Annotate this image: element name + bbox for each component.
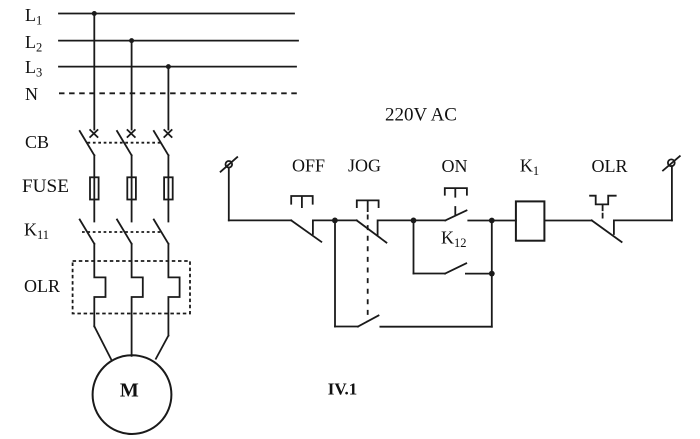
wire phase B through fuses [131, 155, 133, 221]
wire left rail horizontal [229, 219, 291, 221]
svg-text:FUSE: FUSE [22, 176, 69, 197]
wire bypass rail right [380, 326, 491, 328]
breaker CB linkage (dashed) [88, 142, 161, 144]
wire left rail vertical [228, 168, 230, 221]
breaker CB pole 2 cross [128, 130, 135, 137]
wire phase A drop [93, 14, 95, 130]
pushbutton JOG cap [357, 200, 379, 211]
wire drop to bypass rail [334, 220, 336, 326]
contactor K11 linkage (dashed) [82, 231, 161, 233]
node junction before ON [411, 218, 417, 224]
contactor K11 pole 1 blade [80, 220, 95, 244]
wire L1 bus [59, 13, 294, 15]
svg-text:OLR: OLR [592, 156, 628, 176]
wire phase C to motor [156, 336, 169, 359]
motor M body [93, 355, 172, 434]
breaker CB pole 3 cross [164, 130, 171, 137]
pushbutton ON NO blade [445, 210, 466, 220]
terminal left (circle with slash) [226, 161, 233, 168]
wire L2 bus [59, 40, 298, 42]
overload heater phase C [168, 244, 179, 336]
node junction on L2 [129, 38, 134, 43]
pushbutton OFF fixed contact [313, 220, 335, 234]
pushbutton OFF NC blade [291, 220, 321, 241]
wire K1 to OLR contact [544, 220, 591, 222]
svg-text:OFF: OFF [292, 156, 325, 176]
wire right vertical (rail to bypass) [491, 221, 493, 327]
svg-text:N: N [25, 84, 38, 104]
overload contact actuator stem [602, 204, 604, 217]
wire rail ON to K1 [468, 220, 516, 222]
breaker CB pole 1 cross [90, 130, 97, 137]
wire K12 branch left vertical [413, 220, 415, 273]
breaker CB pole 2 blade [117, 131, 132, 155]
wire phase C through fuses [167, 155, 169, 221]
contact K12 NO blade [445, 263, 466, 273]
wire phase A through fuses [93, 155, 95, 221]
pushbutton JOG NC blade [357, 220, 387, 242]
overload relay OLR enclosure (dashed box) [73, 261, 190, 314]
wire L3 bus [59, 66, 296, 68]
svg-text:OLR: OLR [24, 276, 60, 296]
pushbutton OFF cap [291, 196, 313, 207]
fuse F3 body [164, 177, 173, 199]
overload contact fixed side [614, 220, 672, 234]
pushbutton ON cap [445, 188, 467, 214]
wire phase B drop [131, 41, 133, 130]
wire phase C drop [167, 67, 169, 130]
wire rail OFF to JOG [335, 219, 357, 221]
wire N bus (dashed) [59, 92, 298, 94]
pushbutton JOG NO blade [358, 316, 379, 327]
contactor K11 pole 2 blade [117, 220, 132, 244]
terminal right (circle with slash) [668, 159, 675, 166]
contactor K11 pole 3 blade [154, 220, 169, 244]
pushbutton JOG link (dashed) [367, 215, 369, 322]
svg-text:IV.1: IV.1 [328, 380, 357, 399]
overload contact thermal element [590, 196, 616, 205]
wire bypass rail left [335, 326, 358, 328]
fuse F2 body [127, 177, 136, 199]
fuse F1 body [90, 177, 99, 199]
wire K12 branch right horizontal [466, 273, 492, 275]
wire K12 branch left horizontal [414, 273, 446, 275]
coil K1 body [516, 201, 545, 240]
breaker CB pole 3 blade [154, 131, 169, 155]
node junction on L1 [92, 11, 97, 16]
overload heater phase A [94, 244, 105, 326]
pushbutton JOG fixed contact [378, 220, 414, 235]
wire rail to ON [414, 219, 446, 221]
wire phase A to motor [94, 326, 111, 360]
overload contact NC blade [592, 220, 622, 242]
svg-text:M: M [120, 379, 139, 401]
node junction after ON [489, 218, 495, 224]
breaker CB pole 1 blade [80, 131, 95, 155]
overload heater phase B [132, 244, 143, 356]
svg-text:JOG: JOG [348, 156, 381, 176]
node junction K12 right [489, 271, 495, 277]
wire right rail vertical [671, 166, 673, 220]
svg-text:CB: CB [25, 132, 49, 152]
svg-text:ON: ON [442, 156, 468, 176]
node junction on L3 [166, 64, 171, 69]
node junction after OFF [332, 218, 338, 224]
svg-text:220V AC: 220V AC [385, 105, 457, 126]
